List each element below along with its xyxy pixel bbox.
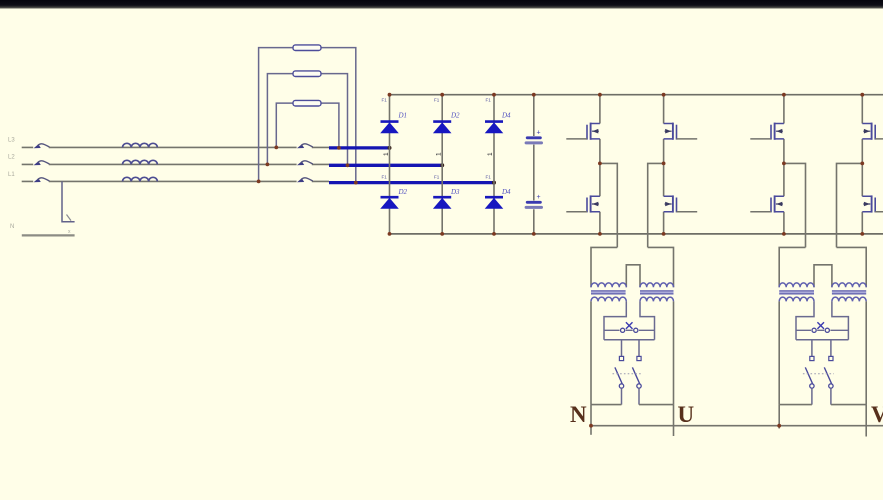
wire inverter leg4 vertical (861, 95, 863, 234)
wire bridge leg3 vertical (493, 95, 495, 234)
switch neutral blade (67, 215, 72, 221)
transformer T1 primary winding right (640, 283, 674, 287)
node dot loop2-bar2 (346, 163, 350, 167)
wire leg3 midpoint output (784, 163, 806, 247)
transformer T2 primary winding left (779, 283, 814, 287)
node dot bottom rail bridge1 (388, 232, 392, 236)
switch S2 blades (805, 367, 831, 384)
node dot top rail bridge3 (492, 93, 496, 97)
node dot bottom rail leg1 (598, 232, 602, 236)
wire T2 secondary outer left down (778, 301, 780, 404)
resistor R2 (293, 71, 321, 77)
inductor L filter phase1 (123, 143, 158, 147)
terminal squares T1 (619, 356, 641, 360)
diode D6 (485, 197, 503, 208)
wire soft-start outer loop (259, 48, 356, 183)
svg-text:F1: F1 (434, 98, 440, 103)
wire bridge leg1 vertical (389, 95, 391, 234)
wire T1 secondary inner taps (604, 301, 655, 339)
wire soft-start middle loop (267, 74, 347, 166)
node dot top rail bridge2 (440, 93, 444, 97)
wire DC top rail (390, 94, 883, 96)
transistor Q2 (566, 195, 600, 212)
relay K2 contact line (796, 329, 848, 331)
svg-text:U: U (678, 402, 695, 427)
transformer T2 core (779, 291, 866, 294)
node dot top rail cap (532, 93, 536, 97)
wire phase1 segments (22, 146, 329, 148)
switch S1 blades (615, 367, 640, 384)
wire inverter leg1 vertical (599, 95, 601, 234)
svg-text:+: + (537, 194, 541, 201)
wire T1 bottom rail segments (591, 404, 674, 406)
node dot N bus T2 (777, 424, 781, 428)
wire T1 secondary outer left down (590, 301, 592, 404)
diode D1 (381, 122, 399, 133)
node dot bottom rail leg3 (782, 232, 786, 236)
wire leg1 midpoint output (600, 163, 617, 247)
wire T2 left tail to bus (778, 405, 780, 429)
node dot N bus left (589, 424, 593, 428)
node dot top rail bridge1 (388, 93, 392, 97)
svg-text:F1: F1 (486, 175, 492, 180)
wire T1 below relay box (622, 340, 640, 357)
wire N tail below rail (590, 405, 592, 435)
contactor KM1 phase1 (297, 144, 313, 149)
node dot top rail leg3 (782, 93, 786, 97)
transistor Q4 (664, 195, 698, 212)
transformer T2 secondary winding right (832, 297, 866, 301)
transformer T2 primary winding right (832, 283, 866, 287)
svg-text:L3: L3 (8, 138, 15, 144)
wire inverter leg3 vertical (783, 95, 785, 234)
contactor KM1 phase2 (297, 161, 313, 166)
svg-text:+: + (537, 130, 541, 137)
node dot leg1 midpoint (598, 162, 602, 166)
node dot loop2-phase2 (266, 163, 270, 167)
node dot loop3-bar3 (354, 181, 358, 185)
wire T2 secondary outer right down (865, 301, 867, 404)
diode D5 (433, 197, 451, 208)
transformer T1 secondary winding left (591, 297, 626, 301)
svg-text:D4: D4 (501, 112, 511, 120)
wire DC bottom rail (390, 233, 883, 235)
wire leg2 midpoint output (648, 163, 664, 247)
transistor Q8 (862, 195, 883, 212)
svg-text:1: 1 (383, 152, 390, 156)
node dot loop1-bar1 (337, 146, 341, 150)
wire phase2 segments (22, 163, 329, 165)
svg-text:D1: D1 (398, 112, 408, 120)
terminal squares T2 (810, 356, 833, 360)
breaker QF1 phase1 (34, 144, 50, 149)
wire inverter leg2 vertical (663, 95, 665, 234)
capacitor C2 (525, 201, 543, 209)
svg-text:1: 1 (487, 152, 494, 156)
relay K1 X mark (626, 322, 633, 329)
wire neutral drop from phase3 (62, 181, 75, 221)
node dot bottom rail cap (532, 232, 536, 236)
wire capacitor branch vertical (533, 95, 535, 234)
svg-text:1: 1 (436, 152, 443, 156)
node dot bar3 bridge junction (492, 181, 496, 185)
svg-text:D2: D2 (450, 112, 460, 120)
top letterbox bar (0, 0, 883, 9)
node dot bottom rail bridge3 (492, 232, 496, 236)
transformer T1 secondary winding right (640, 297, 674, 301)
wire T1 switch to rail (622, 388, 640, 404)
contactor KM1 phase3 (297, 178, 313, 183)
node dot top rail leg1 (598, 93, 602, 97)
svg-text:D4: D4 (501, 188, 511, 196)
wire T2 secondary inner taps (796, 301, 848, 339)
wire U tail below rail (673, 405, 675, 436)
node dot leg2 midpoint (662, 162, 666, 166)
transformer T2 secondary winding left (779, 297, 814, 301)
wire bridge leg2 vertical (441, 95, 443, 234)
wire T2 bottom rail segments (779, 404, 866, 406)
relay K2 X mark (817, 322, 824, 329)
svg-text:L1: L1 (8, 172, 15, 178)
wire V tail below rail (865, 405, 867, 437)
svg-text:F1: F1 (382, 175, 388, 180)
svg-text:D2: D2 (398, 188, 408, 196)
transistor Q7 (862, 123, 883, 140)
transistor Q1 (566, 123, 600, 140)
svg-text:F1: F1 (382, 98, 388, 103)
relay K2 contact circles (812, 328, 829, 332)
wire T2 primary feed (779, 247, 866, 287)
capacitor C1 (525, 136, 543, 144)
wire thick bus bar3 (329, 181, 494, 184)
node dot loop3-phase3 (257, 180, 261, 184)
transistor Q3 (664, 123, 698, 140)
wire neutral bus gray (22, 234, 75, 236)
wire T1 secondary outer right down (673, 301, 675, 404)
diode D4 (381, 197, 399, 208)
node dot bottom rail leg4 (860, 232, 864, 236)
wire T2 switch to rail (812, 388, 831, 404)
svg-text:D3: D3 (450, 188, 460, 196)
switch S2 bottom circles (810, 384, 833, 388)
switch S1 dotted link (613, 373, 642, 375)
svg-text:L2: L2 (8, 155, 15, 161)
diode D3 (485, 122, 503, 133)
relay K1 contact line (604, 329, 655, 331)
breaker QF1 phase3 (34, 178, 50, 183)
wire N bus (591, 425, 883, 427)
svg-text:N: N (10, 224, 14, 230)
switch S1 bottom circles (619, 384, 641, 388)
transistor Q5 (750, 123, 784, 140)
wire leg4 midpoint output (837, 163, 863, 247)
resistor R1 (293, 45, 321, 51)
node dot bottom rail bridge2 (440, 232, 444, 236)
relay K1 contact circles (621, 328, 638, 332)
wire T2 primary center bridge (814, 265, 832, 287)
transformer T1 core (591, 291, 674, 294)
node dot leg4 midpoint (860, 162, 864, 166)
wire thick bus bar2 (329, 164, 442, 167)
breaker QF1 phase2 (34, 161, 50, 166)
switch S2 dotted link (803, 373, 834, 375)
wire thick bus bar1 (329, 146, 390, 149)
node dot leg3 midpoint (782, 162, 786, 166)
svg-text:V: V (871, 402, 883, 427)
node dot bar2 bridge junction (440, 163, 444, 167)
inductor L filter phase2 (123, 160, 158, 164)
node dot top rail leg4 (860, 93, 864, 97)
diode D2 (433, 122, 451, 133)
node dot bar1 bridge junction (388, 146, 392, 150)
wire T1 primary center bridge (626, 265, 640, 287)
node dot top rail leg2 (662, 93, 666, 97)
wire T1 primary feed (591, 247, 674, 287)
transformer T1 primary winding left (591, 283, 626, 287)
svg-text:N: N (570, 402, 587, 427)
wire T2 below relay box (812, 340, 831, 357)
wire soft-start inner loop (276, 103, 339, 148)
node dot loop1-phase1 (274, 146, 278, 150)
svg-text:F1: F1 (486, 98, 492, 103)
svg-text:F1: F1 (434, 175, 440, 180)
transistor Q6 (750, 195, 784, 212)
wire phase3 segments (22, 180, 329, 182)
resistor R3 (293, 100, 321, 106)
node dot bottom rail leg2 (662, 232, 666, 236)
inductor L filter phase3 (123, 177, 158, 181)
